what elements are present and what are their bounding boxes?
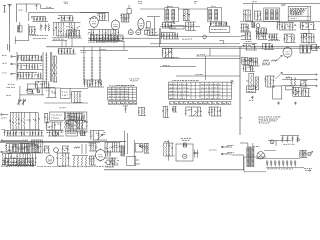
wire jack to bus [232,155,244,170]
vertical x162-169 [162,107,169,118]
dense block row2 [4,159,34,166]
wire line y58.5 [128,58,240,60]
wire line y56 [196,55,240,57]
wire below caps [266,167,304,169]
box small [247,86,256,93]
label TO on y56 [197,54,205,56]
IF transformer T2 [208,7,222,21]
wire corner x222 [219,41,223,44]
cluster with diagonal [185,107,202,116]
dash label [6,94,10,96]
wire box corner [25,4,27,12]
AF components B [240,32,251,40]
bottom right label [304,168,312,171]
box x60-70 [60,89,70,99]
parts list text row [1,165,108,167]
band switch row 1 [17,55,43,61]
wire long bus y141.3 [0,141,126,142]
component can [144,27,147,34]
wire vertical x134 down [134,140,140,164]
wire line y66.6 [160,66,196,68]
parts x104-122 y142 [104,143,121,153]
parts x89-96 y156 [89,156,96,165]
caps x144-149 [144,143,150,153]
aerial cluster x162 [162,49,174,58]
wire vertical x42 [41,86,43,95]
coil L1 (osc) [18,22,23,32]
parts left of box [44,113,49,123]
labels under bus [88,41,117,43]
detector components [243,10,253,21]
power transformer core [249,147,252,168]
variable capacitor C2b [44,24,47,32]
label SW2 [81,51,86,53]
resistors x45-57 [46,88,57,98]
dense block bottom-left [2,154,37,166]
wire vertical x205.5 [206,48,211,80]
labels under cap row [267,168,293,170]
ground x295 [294,102,297,105]
label text x6 [6,86,15,88]
wire antenna down-lead [9,22,11,52]
speaker terminals [311,46,319,47]
diagonal arrow 3 [97,134,103,140]
label ANT [19,9,23,11]
band switch row 2 [17,64,43,70]
wire vertical x252 [252,4,254,22]
cluster x163-174 [163,143,174,156]
label AF [246,40,252,42]
wire bus under tubes [88,40,122,42]
wire line y50.4 [80,41,128,51]
res h x75 [74,147,80,149]
cluster below switch [35,82,50,89]
label on line y50 [99,48,106,50]
switch wafer bus left [16,52,18,81]
parts right of V5 [57,153,70,166]
cluster x71-82 [71,92,82,103]
volume control cluster [242,44,257,51]
wire vertical x19.9 [19,86,21,99]
components x300-318 [300,23,316,30]
bus parts y33-40 [161,33,192,40]
detector diode cluster [256,24,268,34]
wire to terminal 2 [282,79,317,80]
coil with arrow [26,90,34,94]
coupling network box [127,5,131,17]
terminal label A [2,56,16,58]
tone switch box [50,112,65,120]
resistor row h1 [263,60,277,62]
electrolytic row [266,160,296,166]
bottom-left text rows [2,162,34,165]
tuner marks row [30,35,48,38]
components right of det [254,11,262,20]
verticals x82-86 [82,144,86,154]
left edge mark [240,117,242,119]
diode D1 [298,138,300,141]
wire bus y38 [88,37,160,39]
coil bar [252,22,255,28]
label above transformer [254,146,260,148]
resistor bank PS [281,136,300,145]
switch pole 3 [99,47,101,84]
cluster x300-307 ps [299,150,307,157]
components x300-307 [300,81,307,88]
diagonal arrow 1 [276,55,283,61]
tube V3 12BE6 [138,17,144,30]
grid components row V1-V2 [88,30,120,41]
bottom-left overlay [5,144,40,153]
cluster x292-302 [292,87,303,96]
parts x302-310 [302,89,310,97]
ground below box [249,96,254,100]
wire vertical feed [15,4,17,22]
phono caption [181,138,191,140]
wire y88 seg [44,87,88,89]
tube V5 12SQ7 audio [46,154,54,164]
resistors x107-110 [107,151,111,157]
ground symbol at antenna [3,6,6,13]
resistor R1 [48,24,50,32]
box in row [66,131,78,136]
small box right of V3 [147,22,150,28]
tuning cap E2 [22,99,26,106]
pilot/fuse F1 [270,140,274,144]
ground below field coil [277,102,280,105]
box horizontal (IF cathode) [170,26,184,29]
box horizontal 2 [209,26,230,32]
cluster y146 b [20,144,30,154]
parts x111-118 y158 [111,158,119,165]
small circle x108 y162 [106,160,111,165]
tone cluster circles [243,58,260,72]
components x268-280 row2 [268,34,278,40]
left table caption row [109,102,137,105]
speaker connection box [288,7,310,21]
dense cluster x64-88 [64,112,87,132]
label T2 [211,5,215,7]
circle x56 y150 [54,148,59,153]
switch bottom cluster [84,80,104,87]
cluster y146 c [30,140,43,153]
label row under tubes [89,17,96,19]
AVC components A [240,24,249,31]
wire top bus [16,3,40,5]
wire line y48.3 [162,47,320,49]
circle in row [53,132,58,137]
label left of box [281,4,286,6]
components left of V3 [120,14,129,22]
wire from phono box [193,152,198,154]
field coil box [273,86,282,99]
wire y21.8 right [240,21,320,23]
cap x123-128 [123,106,128,113]
corner bracket x40 [41,4,55,8]
pot cluster x138-146 [138,108,146,116]
switch pole 2 [91,47,93,84]
tube V2 12SA7 [111,19,120,31]
capacitor C5 row [97,14,107,21]
components x283-296 row2 [283,34,295,43]
tone components row [241,58,249,65]
components above box2 [210,22,228,26]
wire stubs to B+ bus [62,38,72,47]
voltage table (right) [169,80,234,99]
components x256-268 row2 [256,33,267,40]
label 115V AC [209,149,216,151]
diagonal arrow 2 [276,72,283,79]
band switch row 3 [17,72,43,79]
wire bus y26.5 [160,26,200,28]
wire y103 seg [44,102,88,104]
row y146 x44-50 [44,146,50,153]
IF transformer T1 [165,6,179,24]
tone pot P2 [255,77,259,90]
verticals x124-128 [125,131,128,155]
osc cluster left [9,113,40,130]
tube V6 50L6 output [96,148,106,161]
model text 1 [129,79,139,81]
label on line y58 [171,56,179,58]
wire B+ bus y46.7 [46,46,320,48]
parts below tone box [46,122,63,130]
parts x146-158 y29 [146,29,157,36]
wire bus y36.6 [160,36,240,38]
IF amp components [183,10,190,21]
transformer top leads [240,143,253,147]
cap on phono box [183,143,187,147]
converter grid cluster [53,23,81,37]
antenna ANT1 [8,5,12,23]
capacitor C1 [36,4,38,10]
wire vertical x168.7 [168,140,170,161]
grid row denser [90,35,124,42]
volume pot P1 [246,73,254,89]
wire IF bus [140,8,208,10]
wire y16.7 right of V3 [147,17,160,35]
note sentence [116,84,134,86]
tube V4 12SQ7 [283,46,292,58]
box small 2 [286,86,294,90]
label top right of T1 [194,1,197,3]
power transformer T6 primary [247,147,249,167]
resistor R30 [286,77,291,79]
switch wafer right contacts [46,52,52,82]
speaker box [127,156,139,165]
wire vertical pair right [160,28,161,47]
parts x98-112 y158 [104,158,114,167]
cluster x64-88 inner [66,114,86,130]
parts above wafer [58,49,76,55]
wire vertical x240 [239,47,241,135]
parts x300-318 y44 [310,45,318,51]
wire antenna leads down [8,44,10,50]
label speaker [59,107,66,109]
label T1 [168,5,172,7]
switch wafer bus right [42,52,44,81]
phono terminal [1,114,8,118]
wire mixer bottom bus [52,40,67,42]
wire y94.9 [20,94,44,96]
tuning cap E1 [17,99,21,106]
caps pair right of box [194,150,198,158]
phono motor M1 [183,154,187,158]
components x277-297 [277,23,297,31]
parts x172-177 [172,107,177,113]
component label row y131-136 [4,131,44,137]
B+ marks [164,140,168,142]
tuner parts row [31,17,48,22]
switch pole 1 [83,47,85,84]
coupling cap C30 [262,44,274,50]
component row below mixer [52,37,66,39]
components under T1 [162,23,176,29]
circle contact [203,35,207,39]
rectifier REC1 [257,152,264,159]
terminal left y152 [1,151,11,154]
wafer contact dashes [45,55,47,79]
parts x80-86 row [79,131,86,136]
cluster y146 a [13,145,18,153]
terminal label B [2,63,16,65]
terminal label C [2,73,16,75]
label 12BE6 [138,2,142,4]
cluster x308-313 ps [308,151,313,155]
small parts x37 [36,90,40,93]
converter parts above [58,16,75,22]
wire long bus y169.8 [104,169,244,171]
right table caption row [170,101,231,104]
wire y158.5 ps [256,151,300,159]
label on line y66 [163,64,170,66]
phone jack J1 [221,145,234,148]
shield box (tuner) [29,12,109,21]
components x300-316 row2 [300,33,315,42]
label above T3 [243,2,320,4]
wire bus y43.8 [150,43,240,45]
output transformer T4 [300,45,311,53]
resistor row h2 [262,63,270,65]
label 12SK7 top [64,2,68,4]
resistor bank x74-86 [72,156,88,168]
wire line y76 [176,75,240,77]
variable capacitor C2a [40,24,43,32]
chassis outline ps [244,157,266,172]
parts x88-98 y142 [89,143,98,151]
wire to terminal 1 [282,74,317,75]
components x185-196 [185,22,196,31]
converter extra parts [66,30,82,38]
label on line y76 [195,74,203,76]
components right of wafer [52,56,57,82]
tube-socket table (left) [108,86,137,101]
coupling caps mid [264,76,275,87]
resistor pair vertical [291,77,296,86]
notes text block [258,117,280,123]
phone jack J2 [221,152,234,155]
box (osc coil 2) [27,84,37,89]
output transformer T5 primary [121,146,125,157]
marks row2 right [268,39,280,41]
terminal left y140 [1,140,28,142]
trimmer cluster [29,27,37,35]
IF transformer T3 [264,8,280,22]
wire switch line [268,140,291,146]
wire to terminal 3 [282,85,317,86]
parts x90-108 y130 [90,131,107,141]
label OSC [8,83,15,85]
left margin marks [1,129,5,131]
wire vertical x309 [308,30,310,45]
component label row y131-136 b [46,131,64,137]
wire shield-box left edge [15,24,29,44]
tube V1 12SK7 [90,16,99,29]
filter box w/ circles [135,143,143,152]
phono motor box [176,144,193,161]
power transformer T6 secondary [252,147,254,167]
padder trimmer B [136,29,141,35]
cluster x208-221 [208,107,221,116]
padder trimmer A [128,29,133,35]
row y146 x62-70 [62,146,70,153]
wire box top segment [80,12,109,14]
